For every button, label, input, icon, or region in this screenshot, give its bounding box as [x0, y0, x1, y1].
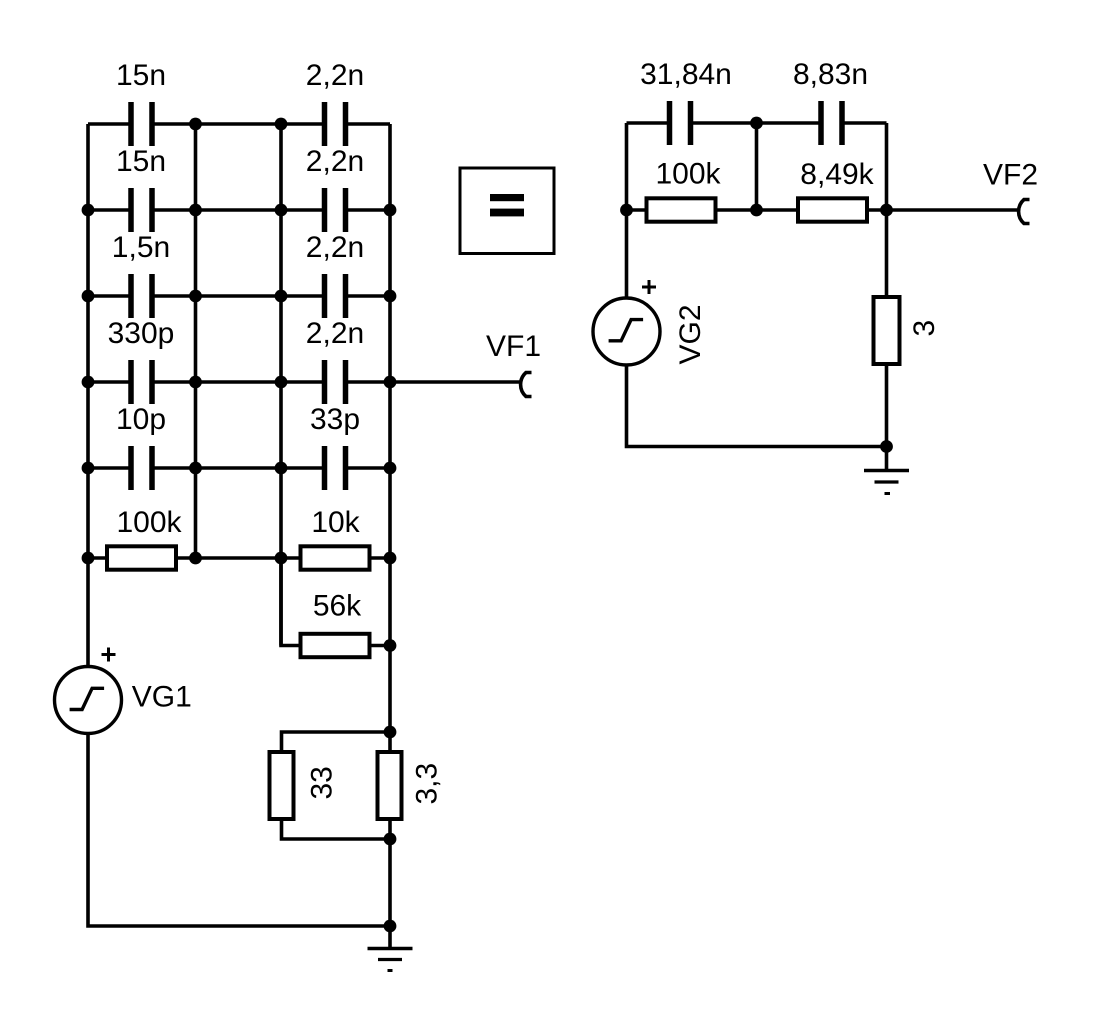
svg-text:1,5n: 1,5n — [112, 231, 170, 264]
svg-text:3,3: 3,3 — [411, 763, 444, 805]
svg-text:100k: 100k — [116, 506, 182, 539]
svg-text:33p: 33p — [310, 403, 360, 436]
svg-text:2,2n: 2,2n — [306, 231, 364, 264]
svg-text:2,2n: 2,2n — [306, 145, 364, 178]
svg-text:33: 33 — [306, 766, 339, 799]
svg-text:2,2n: 2,2n — [306, 317, 364, 350]
svg-text:15n: 15n — [116, 145, 166, 178]
svg-text:10k: 10k — [311, 506, 360, 539]
svg-text:8,83n: 8,83n — [793, 58, 868, 91]
svg-text:31,84n: 31,84n — [640, 58, 732, 91]
svg-text:VF2: VF2 — [983, 159, 1038, 192]
svg-text:2,2n: 2,2n — [306, 59, 364, 92]
svg-text:VF1: VF1 — [486, 330, 541, 363]
svg-text:VG2: VG2 — [674, 304, 707, 364]
svg-text:15n: 15n — [116, 59, 166, 92]
svg-text:VG1: VG1 — [132, 681, 192, 714]
svg-text:100k: 100k — [655, 158, 721, 191]
svg-text:330p: 330p — [108, 317, 175, 350]
svg-text:10p: 10p — [116, 403, 166, 436]
svg-text:8,49k: 8,49k — [800, 158, 874, 191]
svg-text:3: 3 — [908, 320, 941, 337]
svg-text:56k: 56k — [313, 590, 362, 623]
